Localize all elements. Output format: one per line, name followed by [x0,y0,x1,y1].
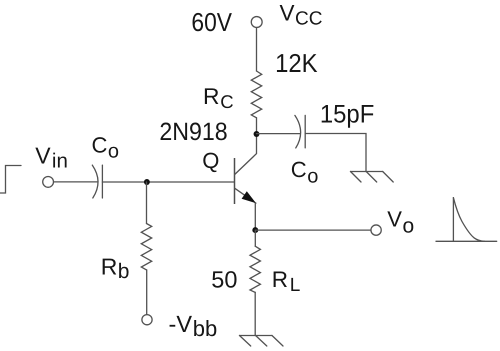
svg-text:in: in [52,149,68,172]
wire output cap to right ground [305,134,366,172]
svg-text:R: R [272,267,288,292]
svg-text:C: C [220,91,233,112]
svg-text:o: o [108,140,119,162]
svg-text:o: o [403,215,415,238]
svg-text:bb: bb [193,316,217,341]
svg-text:60V: 60V [191,7,232,37]
terminal Vo [371,225,381,235]
transistor Q1 emitter stroke [235,188,256,203]
resistor RL [250,246,260,292]
wire emitter node to Vo terminal [255,229,371,231]
transistor Q1 collector stroke [235,118,257,175]
transistor Q1 emitter arrow [242,191,256,203]
input step waveform [0,166,21,194]
svg-text:2N918: 2N918 [159,118,227,146]
svg-text:C: C [92,132,108,157]
svg-text:L: L [290,275,301,296]
wire emitter node down to RL [254,230,256,246]
svg-text:CC: CC [295,8,322,29]
output pulse waveform [436,198,497,242]
capacitor Co (input coupling) [92,165,98,198]
wire Rb to -Vbb terminal [146,270,148,315]
wire RC to VCC terminal [256,28,258,71]
wire Vin to Co [54,181,98,183]
svg-text:V: V [35,142,51,168]
terminal Vin [43,177,54,188]
ground (right, after 15pF) [351,172,394,183]
svg-text:50: 50 [211,267,237,293]
svg-text:15pF: 15pF [320,100,374,128]
wire emitter to output node [254,203,256,230]
wire collector node to output cap [257,133,300,135]
svg-text:V: V [280,0,295,25]
svg-text:C: C [291,157,307,182]
terminal -Vbb [142,315,152,325]
svg-text:V: V [387,207,402,232]
ground (bottom, under RL) [240,336,284,347]
svg-text:12K: 12K [275,48,318,78]
capacitor Co (output, 15pF) [295,115,301,147]
svg-text:o: o [307,165,318,187]
svg-text:R: R [203,83,219,109]
svg-text:-V: -V [169,311,193,337]
wire RL to ground [254,292,256,335]
svg-text:R: R [101,254,118,280]
svg-text:Q: Q [202,148,219,173]
transistor Q1 base bar [234,158,236,204]
node base junction [144,179,150,185]
node collector junction [254,131,260,137]
node emitter junction [252,227,258,233]
terminal VCC [251,17,262,28]
wire base node down to Rb [146,182,148,224]
svg-text:b: b [118,260,130,283]
resistor Rb [141,224,151,270]
resistor RC [251,71,261,118]
wire Co to base node [102,181,234,183]
